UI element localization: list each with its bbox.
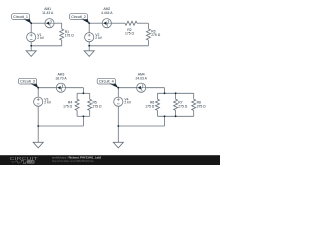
svg-text:2 kV: 2 kV [95,36,102,40]
svg-text:Circuit_1: Circuit_1 [13,15,28,19]
svg-text:2 kV: 2 kV [37,36,44,40]
svg-text:275 Ω: 275 Ω [93,105,103,109]
svg-text:375 Ω: 375 Ω [197,105,207,109]
svg-text:175 Ω: 175 Ω [63,105,73,109]
svg-text:http://circuitlab.com/c/882366: http://circuitlab.com/c/88236649/7aa [52,159,94,163]
svg-text:275 Ω: 275 Ω [151,33,161,37]
svg-text:175 Ω: 175 Ω [145,105,155,109]
svg-text:11.43 A: 11.43 A [42,11,54,15]
svg-text:175 Ω: 175 Ω [125,32,135,36]
svg-text:175 Ω: 175 Ω [65,33,75,37]
svg-text:18.70 A: 18.70 A [55,76,67,80]
svg-text:2 kV: 2 kV [124,101,131,105]
svg-text:Circuit_3: Circuit_3 [20,80,35,84]
svg-text:LAB: LAB [28,160,35,164]
svg-text:2 kV: 2 kV [44,101,51,105]
svg-text:Circuit_2: Circuit_2 [71,15,86,19]
svg-text:275 Ω: 275 Ω [178,105,188,109]
svg-text:24.03 A: 24.03 A [136,76,148,80]
svg-text:Circuit_4: Circuit_4 [99,80,114,84]
svg-text:4.444 A: 4.444 A [101,11,113,15]
